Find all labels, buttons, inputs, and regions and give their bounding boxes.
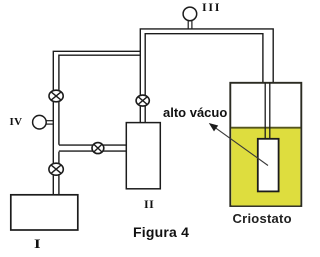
- label I: [34, 236, 41, 252]
- wire: left vertical pipe (outer line, turns right at top into pipe A top line): [53, 51, 140, 195]
- vacuum chamber box II: [126, 123, 160, 189]
- caption Figura 4: [133, 224, 189, 240]
- gauge III bulb: [183, 7, 197, 21]
- wire: horizontal pipe F bottom line: [59, 150, 127, 152]
- valve V2 on pipe B above box II: [136, 95, 149, 106]
- cryostat liquid (yellow): [231, 128, 300, 206]
- label III: [202, 0, 221, 15]
- valve V4 on left pipe above box I: [49, 163, 63, 175]
- wire: left vertical pipe inner line + pipe A bottom line: [59, 55, 140, 145]
- valve V3 on horizontal pipe F: [92, 143, 104, 154]
- gauge IV stub (two lines): [45, 120, 54, 122]
- inner sample tube in cryostat: [258, 139, 279, 192]
- gauge IV bulb: [33, 115, 47, 129]
- wire: left pipe inner line lower segment (below pipe F junction): [58, 152, 60, 195]
- wire: thin tube E inside cryostat (left line): [264, 83, 266, 139]
- wire: top pipe C outer line with corners down into pipe B (left) and pipe D (right): [140, 29, 273, 123]
- arrow line from sample tube to label: [212, 125, 269, 166]
- arrowhead pointing up-left at label: [209, 123, 218, 131]
- label Criostato: [233, 211, 292, 226]
- pump box I: [11, 195, 78, 230]
- cryostat vessel outline: [230, 83, 301, 206]
- valve V1 on left pipe: [49, 90, 63, 102]
- label II: [144, 197, 154, 212]
- wire: horizontal pipe F top line: [59, 144, 127, 146]
- label alto vacuo: [163, 105, 227, 120]
- label IV: [10, 116, 23, 128]
- wire: top pipe C inner line with corners (pipe B right line, pipe D left line): [145, 34, 263, 123]
- wire: thin tube E inside cryostat (right line): [269, 83, 271, 139]
- gauge III stem (two lines): [187, 20, 189, 29]
- liquid surface line: [231, 127, 301, 129]
